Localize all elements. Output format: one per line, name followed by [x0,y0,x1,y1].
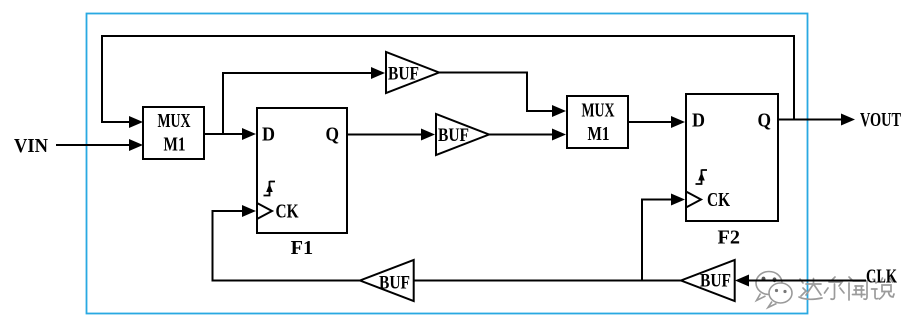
wire top feedback from F2.Q up and across to MUX1 input [102,36,794,122]
flip-flop F1 rising edge icon [264,181,276,196]
arrowhead VOUT [841,114,855,126]
svg-text:M1: M1 [588,123,610,145]
flip-flop F2 rising edge icon [696,170,708,185]
buffer BUF top [386,52,439,93]
svg-text:MUX: MUX [582,100,615,122]
svg-text:Q: Q [758,110,772,132]
svg-text:D: D [692,110,705,132]
flip-flop F2 box [686,94,778,221]
wire CLK from right into bottom right BUF [749,280,866,282]
svg-text:F1: F1 [291,237,314,259]
wire MUX1 output to F1.D with branch up [204,133,242,135]
svg-text:CLK: CLK [866,266,897,288]
watermark character 4 (shuo) [872,278,895,299]
mux M1 right box [567,96,628,148]
wire bottom between BUFs with branch to F2 clock [414,280,681,282]
mux M1 left box [143,107,204,159]
wire top BUF output to MUX2 upper input [439,73,552,112]
watermark wechat logo big bubble [756,272,782,301]
svg-text:M1: M1 [164,134,186,156]
svg-text:MUX: MUX [158,110,191,132]
watermark character 2 (er) [825,277,845,299]
arrowhead into F2 clock [671,194,685,206]
watermark character 3 (wen) [849,277,867,300]
buffer BUF middle [436,114,489,155]
wire branch up from MUX1 output to top BUF input [223,73,371,134]
arrowhead into middle BUF input [421,129,435,141]
arrowhead into MUX2 lower input [552,129,566,141]
arrowhead into MUX1 upper input [129,116,143,128]
watermark wechat logo small bubble [768,283,792,308]
watermark wechat logo small bubble eyes [775,289,787,293]
wire middle BUF output to MUX2 lower input [489,134,552,136]
svg-text:F2: F2 [718,227,741,249]
svg-text:BUF: BUF [379,273,410,294]
wire VIN to MUX1 lower input [56,144,130,146]
wire MUX2 output to F2.D [628,121,671,123]
wire F2.Q output to VOUT [778,119,841,121]
flip-flop F1 box [257,108,347,233]
svg-text:Q: Q [326,124,340,146]
arrowhead into MUX2 upper input [552,105,566,117]
flip-flop F2 clock triangle [686,192,701,208]
arrowhead into MUX1 lower input [129,139,143,151]
buffer BUF bottom left (points left) [360,260,414,301]
svg-text:CK: CK [707,189,730,211]
buffer BUF bottom right (points left) [681,260,735,301]
watermark character 1 (da) [799,279,822,300]
svg-text:BUF: BUF [388,63,419,84]
arrowhead into bottom right BUF input [735,275,749,287]
wire bottom left BUF output to F1 clock [213,211,361,281]
svg-text:VIN: VIN [14,135,49,157]
svg-text:CK: CK [276,201,299,223]
svg-text:BUF: BUF [438,125,469,146]
arrowhead into F1 D input [242,128,256,140]
flip-flop F1 clock triangle [257,203,272,219]
arrowhead into F1 clock [242,205,256,217]
watermark wechat logo big bubble eyes [762,277,777,283]
svg-text:BUF: BUF [700,270,731,291]
wire branch up to F2 clock [642,200,671,281]
arrowhead into F2 D input [671,116,685,128]
arrowhead into top BUF input [371,67,385,79]
svg-text:D: D [262,124,275,146]
cyan frame border [87,14,808,314]
wire F1.Q output to middle BUF input [347,134,421,136]
svg-text:VOUT: VOUT [860,109,901,131]
